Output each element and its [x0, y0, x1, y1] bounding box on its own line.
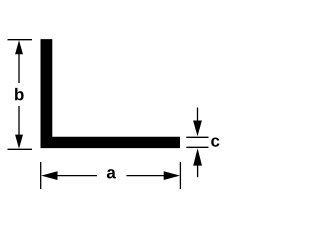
label b	[15, 88, 24, 100]
dimension a left extension line	[40, 162, 42, 189]
dimension a right extension line	[179, 162, 181, 189]
label a	[107, 169, 116, 178]
dimension b line upper segment	[18, 54, 20, 84]
dimension c bottom tick	[186, 146, 208, 148]
L-profile body	[41, 39, 181, 148]
dimension b down arrow	[15, 135, 23, 149]
dimension a right arrow	[164, 171, 180, 180]
dimension a line left segment	[57, 175, 97, 177]
dimension c top tick	[186, 136, 208, 138]
dimension c up arrow	[193, 148, 202, 165]
dimension c lower leader line	[197, 165, 199, 177]
dimension b line lower segment	[18, 106, 20, 135]
dimension b top tick	[8, 39, 33, 41]
dimension a line right segment	[126, 175, 164, 177]
dimension c down arrow	[193, 121, 202, 137]
dimension b bottom tick	[8, 148, 33, 150]
dimension a left arrow	[41, 171, 57, 180]
label c	[211, 137, 219, 146]
dimension c upper leader line	[197, 108, 199, 122]
dimension b up arrow	[15, 40, 23, 54]
